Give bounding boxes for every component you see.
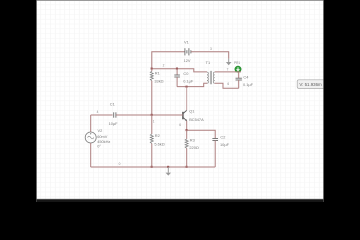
svg-text:T1: T1	[206, 60, 211, 65]
junction R3 bottom	[186, 166, 188, 168]
probe PR1 (green voltage probe)	[235, 66, 241, 72]
ground (bottom rail)	[166, 167, 172, 176]
resistor R2	[150, 115, 164, 167]
svg-text:10µF: 10µF	[109, 121, 119, 126]
top edge line	[36, 0, 324, 1]
svg-text:C4: C4	[243, 74, 249, 79]
svg-text:220Ω: 220Ω	[189, 145, 198, 150]
svg-text:7: 7	[227, 67, 229, 71]
svg-text:BC547A: BC547A	[189, 117, 204, 122]
wire emitter to C2 branch	[187, 130, 216, 138]
resistor R3	[185, 130, 199, 167]
svg-text:PR1: PR1	[234, 61, 240, 65]
svg-text:1: 1	[153, 119, 155, 123]
wire V1 negative to ground	[191, 52, 229, 59]
junction collector tap	[186, 86, 188, 88]
junction R2 bottom	[151, 166, 153, 168]
svg-text:V: 51.936m: V: 51.936m	[299, 82, 322, 87]
ground (battery negative)	[226, 59, 232, 66]
bottom rail wire	[91, 166, 216, 168]
source V2	[85, 115, 110, 167]
primary bottom wire (to C0 and collector tap)	[177, 83, 207, 86]
svg-text:33kΩ: 33kΩ	[154, 79, 163, 84]
resistor R1	[150, 69, 163, 84]
base wire	[152, 114, 183, 116]
node 2 wire (top rail to transformer primary)	[152, 69, 207, 72]
junction base node	[151, 114, 153, 116]
wire from V1 positive to node 2	[152, 52, 185, 69]
svg-text:4: 4	[97, 110, 99, 114]
svg-text:6: 6	[227, 82, 229, 86]
secondary bottom wire	[215, 83, 239, 88]
svg-text:V1: V1	[184, 40, 189, 45]
collector wire	[186, 87, 188, 111]
capacitor C2	[212, 135, 229, 167]
svg-text:5.6kΩ: 5.6kΩ	[154, 142, 164, 147]
capacitor C1	[91, 101, 152, 126]
canvas background	[36, 1, 324, 199]
capacitor C4	[236, 72, 254, 88]
svg-text:3: 3	[210, 47, 212, 51]
capacitor C0	[174, 69, 194, 87]
svg-text:C1: C1	[110, 101, 115, 106]
svg-text:C2: C2	[220, 135, 225, 140]
wire R1 bottom to base node	[151, 81, 153, 115]
junction emitter	[186, 129, 188, 131]
svg-text:R3: R3	[190, 137, 195, 142]
svg-text:0.1µF: 0.1µF	[183, 79, 194, 84]
svg-text:0.1µF: 0.1µF	[243, 82, 254, 87]
transformer T1	[206, 60, 215, 84]
svg-text:V2: V2	[98, 128, 103, 133]
svg-text:R1: R1	[155, 71, 160, 76]
left black bar	[0, 0, 36, 202]
secondary top wire	[215, 71, 241, 73]
svg-text:R2: R2	[155, 133, 160, 138]
svg-text:C0: C0	[183, 71, 189, 76]
bottom edge band	[36, 198, 324, 201]
svg-text:Q1: Q1	[189, 109, 194, 114]
emitter wire down	[186, 121, 188, 130]
junction node 2	[151, 68, 153, 70]
right black bar	[324, 0, 360, 202]
transistor Q1	[183, 109, 204, 123]
svg-text:10µF: 10µF	[220, 142, 230, 147]
svg-text:12V: 12V	[184, 58, 191, 63]
svg-text:0°: 0°	[97, 143, 101, 148]
battery V1	[184, 40, 191, 63]
svg-text:2: 2	[163, 64, 165, 68]
svg-text:0: 0	[119, 162, 121, 166]
svg-text:6: 6	[179, 123, 181, 127]
junction C0 top	[176, 68, 178, 70]
probe readout box	[297, 80, 328, 89]
junction ground	[167, 166, 169, 168]
